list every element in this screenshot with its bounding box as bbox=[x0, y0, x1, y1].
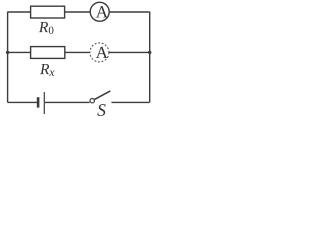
svg-text:A: A bbox=[96, 2, 109, 21]
wire right vertical bbox=[149, 12, 151, 103]
node junction right bbox=[148, 51, 151, 54]
wire top branch right bbox=[109, 11, 150, 13]
resistor R0 bbox=[31, 6, 65, 18]
wire top branch left bbox=[8, 11, 31, 13]
svg-text:S: S bbox=[97, 100, 106, 119]
svg-text:R: R bbox=[38, 19, 49, 36]
node junction left bbox=[6, 51, 9, 54]
wire top branch mid bbox=[65, 11, 91, 13]
wire battery to switch bbox=[45, 101, 90, 103]
switch S pivot bbox=[90, 99, 94, 103]
wire bottom branch left bbox=[8, 101, 37, 103]
battery long plate bbox=[43, 92, 45, 114]
ammeter A1 circle bbox=[90, 2, 109, 21]
wire left vertical bbox=[7, 12, 9, 103]
svg-text:0: 0 bbox=[48, 25, 54, 37]
wire switch right bbox=[111, 101, 149, 103]
resistor Rx bbox=[31, 47, 65, 59]
wire middle branch mid bbox=[65, 51, 90, 53]
svg-text:A: A bbox=[96, 43, 109, 62]
ammeter A2 dashed circle bbox=[90, 43, 109, 62]
wire middle branch left bbox=[8, 51, 31, 53]
wire middle branch right bbox=[109, 51, 150, 53]
battery short plate bbox=[37, 97, 40, 107]
svg-text:x: x bbox=[48, 65, 55, 79]
switch S lever bbox=[94, 91, 110, 100]
